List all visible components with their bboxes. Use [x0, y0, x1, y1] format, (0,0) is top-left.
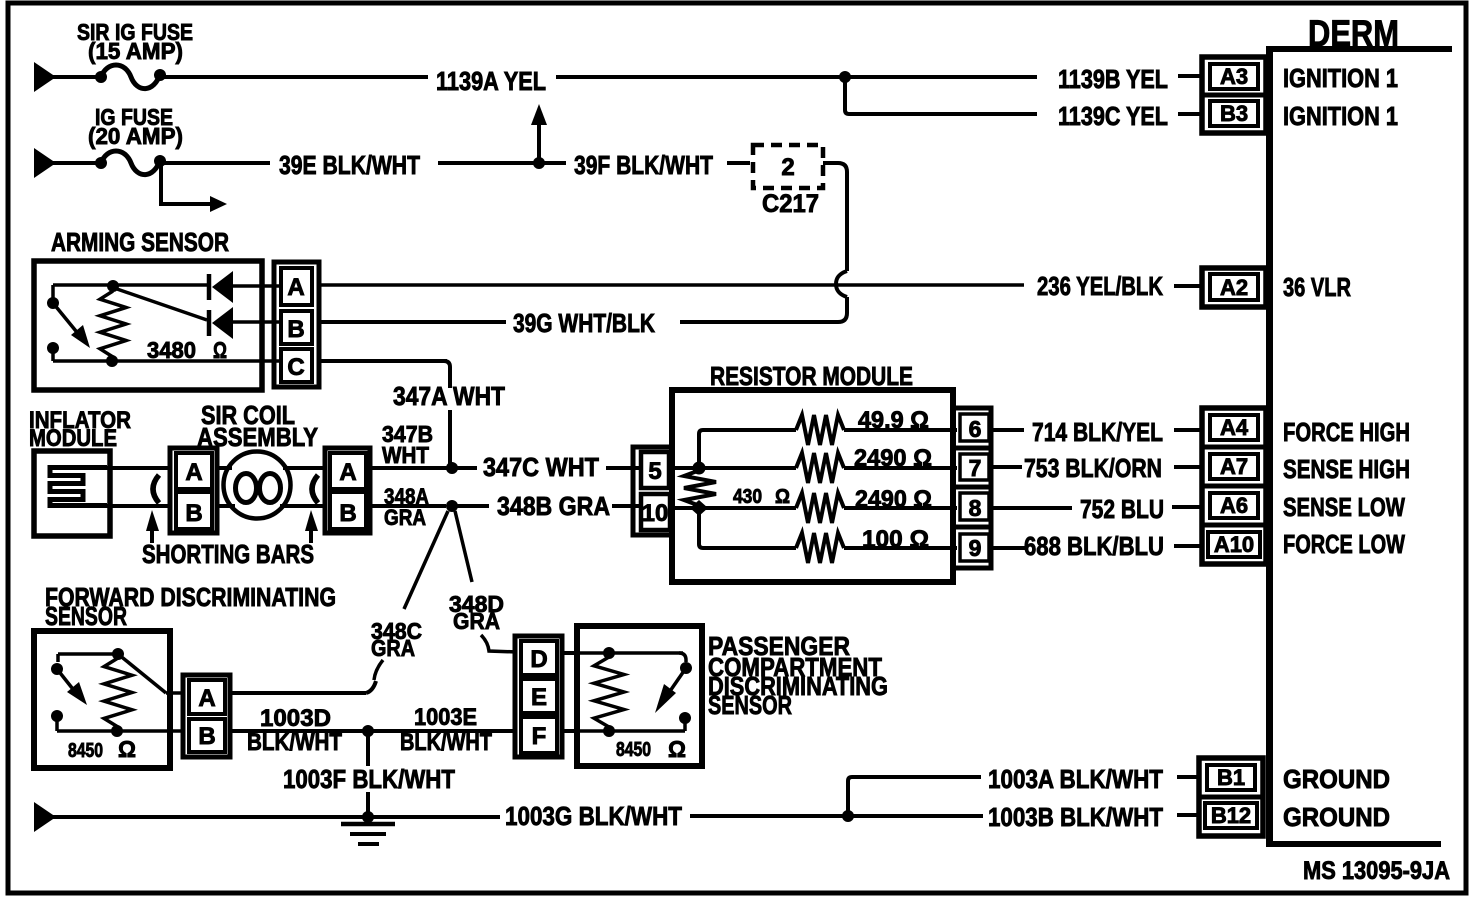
- coil connector right pin B: [330, 492, 366, 529]
- svg-text:A: A: [287, 274, 304, 301]
- wire 39F BLK/WHT: [539, 161, 566, 165]
- svg-text:39F BLK/WHT: 39F BLK/WHT: [574, 150, 713, 180]
- wire 348B GRA: [452, 504, 489, 508]
- wire 348D diagonal: [455, 511, 472, 582]
- svg-text:1139A YEL: 1139A YEL: [436, 66, 546, 96]
- wire 39E BLK/WHT: [164, 161, 270, 165]
- svg-text:5: 5: [648, 458, 661, 485]
- svg-text:688 BLK/BLU: 688 BLK/BLU: [1024, 531, 1164, 561]
- PCDS switch stub: [683, 718, 687, 731]
- wire diode D2 to pin B: [231, 320, 281, 324]
- FDS box: [34, 631, 170, 768]
- svg-text:7: 7: [969, 455, 982, 481]
- DEF connector shell: [515, 636, 562, 757]
- wire 1139C YEL drop: [845, 77, 1037, 114]
- module pin 10 box: [641, 494, 670, 530]
- pin A6 box: [1210, 493, 1258, 518]
- svg-text:B: B: [339, 500, 356, 527]
- DERM top line: [1266, 46, 1452, 52]
- resistor 430 ohm: [684, 470, 716, 506]
- PCDS box: [577, 626, 702, 766]
- svg-text:2: 2: [781, 154, 794, 181]
- DERM pins B1 B12 shell: [1199, 758, 1263, 836]
- pin D box: [521, 641, 557, 675]
- junction node 1139 splice: [839, 71, 851, 83]
- PCDS top wire: [580, 651, 683, 655]
- svg-text:1003G BLK/WHT: 1003G BLK/WHT: [505, 801, 682, 831]
- svg-text:IGNITION 1: IGNITION 1: [1283, 101, 1398, 131]
- resistor 2490 ohm (bottom): [796, 493, 844, 523]
- shorting bar clip right: [312, 475, 318, 503]
- svg-text:753 BLK/ORN: 753 BLK/ORN: [1024, 453, 1162, 483]
- bus node top: [693, 462, 706, 475]
- fuse F1 SIR IG FUSE 15A: [95, 71, 107, 83]
- branch wire with arrow (continues elsewhere): [161, 166, 212, 204]
- svg-text:BLK/WHT: BLK/WHT: [400, 729, 492, 756]
- svg-text:GRA: GRA: [384, 505, 426, 530]
- pin A4 box: [1210, 415, 1258, 440]
- arming pin C box: [281, 349, 312, 382]
- DERM pins A3 B3 shell: [1202, 57, 1266, 133]
- wire into pin 10: [612, 504, 641, 508]
- wire 347B WHT: [370, 466, 447, 470]
- FDS bottom wire: [57, 729, 183, 733]
- wire 347C to pin 5: [606, 466, 636, 470]
- wire connector to coil top: [217, 466, 232, 470]
- module connector shell: [633, 447, 672, 535]
- svg-text:FORCE LOW: FORCE LOW: [1283, 529, 1405, 559]
- wire stub to C217: [727, 161, 750, 165]
- arming sensor node bottom: [106, 355, 118, 367]
- svg-text:Ω: Ω: [213, 337, 227, 363]
- svg-text:A4: A4: [1220, 415, 1249, 440]
- pin B3 box: [1210, 101, 1258, 126]
- svg-text:A: A: [185, 459, 202, 486]
- wire 752 BLU: [991, 506, 1072, 510]
- FDS switch contact bottom: [51, 710, 63, 722]
- resistor 100 ohm: [796, 533, 844, 563]
- junction node 39 splice: [533, 157, 545, 169]
- svg-text:10: 10: [642, 500, 669, 527]
- ground symbol: [341, 822, 395, 827]
- arming sensor box: [34, 261, 262, 390]
- svg-text:Ω: Ω: [668, 736, 686, 762]
- svg-text:A6: A6: [1220, 493, 1248, 518]
- wire to pin 6: [844, 428, 957, 432]
- pin B1 box: [1207, 765, 1255, 790]
- arming sensor switch wire: [51, 285, 55, 300]
- svg-text:MS 13095-9JA: MS 13095-9JA: [1303, 857, 1450, 885]
- coil connector left pin B: [176, 492, 212, 529]
- module pin 5 box: [641, 452, 669, 488]
- wire 1139B YEL: [845, 75, 1037, 79]
- svg-text:347A WHT: 347A WHT: [393, 381, 505, 411]
- wire 348C diagonal: [404, 511, 448, 609]
- FDS switch stub: [55, 716, 59, 731]
- wire stub to B3: [1178, 112, 1201, 116]
- DERM bottom line: [1266, 841, 1441, 847]
- svg-text:347C WHT: 347C WHT: [483, 452, 599, 482]
- wire 348B to pin 10: [614, 504, 636, 508]
- wire 348C diagonal lower: [374, 660, 383, 680]
- svg-text:B1: B1: [1217, 765, 1245, 790]
- svg-text:9: 9: [969, 535, 982, 561]
- bus node bottom: [690, 500, 708, 516]
- svg-text:1003D: 1003D: [260, 705, 331, 732]
- svg-text:1003B BLK/WHT: 1003B BLK/WHT: [988, 802, 1163, 832]
- FDS switch arm: [57, 669, 76, 693]
- wire to pin 7: [844, 466, 957, 470]
- coil connector left pin A: [176, 453, 212, 489]
- svg-text:A3: A3: [1220, 64, 1248, 89]
- wire 753 BLK/ORN: [991, 465, 1022, 469]
- svg-text:MODULE: MODULE: [29, 425, 117, 452]
- svg-text:A10: A10: [1214, 532, 1254, 557]
- resistor module box: [672, 390, 953, 582]
- svg-text:SENSOR: SENSOR: [708, 690, 792, 720]
- FDS node bottom: [111, 725, 123, 737]
- SIR coil winding left: [236, 474, 257, 503]
- module pin 9 box: [953, 527, 991, 568]
- wire pin F to PCDS: [562, 729, 580, 733]
- wire stub to A6: [1172, 505, 1201, 509]
- svg-text:430: 430: [733, 486, 762, 508]
- svg-text:B: B: [198, 723, 215, 750]
- arming sensor bottom wire: [53, 359, 280, 363]
- coil connector left shell: [170, 448, 217, 533]
- PCDS node bottom: [603, 725, 615, 737]
- wire into pin 5: [610, 466, 641, 470]
- wire coil to right connector bottom: [280, 504, 327, 508]
- wire FDS pin A to 348C: [230, 691, 366, 695]
- wire hop over 236 wire: [836, 271, 847, 297]
- power feed arrow 1: [34, 62, 56, 92]
- DERM pins A4-A10 shell: [1202, 408, 1266, 564]
- SIR coil circle: [224, 452, 291, 519]
- FDS node top: [112, 648, 124, 660]
- wire bus to R2490b: [699, 506, 796, 510]
- wire diode D1 to pin A: [231, 284, 281, 288]
- svg-text:GRA: GRA: [453, 608, 500, 634]
- bus wire top: [699, 430, 796, 468]
- pin A2 box: [1210, 274, 1258, 300]
- wire: [52, 161, 97, 165]
- FDS pin A box: [189, 680, 225, 714]
- coil connector right pin A: [330, 453, 366, 489]
- wire stub to A3: [1178, 74, 1201, 78]
- power feed arrow 2: [34, 148, 56, 178]
- FDS resistor 8450 ohm: [104, 658, 132, 727]
- wire stub to A10: [1174, 544, 1201, 548]
- svg-text:39E BLK/WHT: 39E BLK/WHT: [279, 150, 420, 180]
- wire 347C WHT: [452, 466, 477, 470]
- wire: [52, 75, 97, 79]
- svg-text:D: D: [530, 646, 547, 673]
- wire 1003A riser: [848, 777, 981, 816]
- wire to pin 8: [844, 506, 957, 510]
- DERM vertical line: [1266, 49, 1273, 845]
- arming pin A box: [281, 268, 312, 305]
- wire down to 39G: [680, 297, 847, 322]
- PCDS switch arm: [668, 668, 686, 694]
- svg-text:236 YEL/BLK: 236 YEL/BLK: [1037, 271, 1163, 301]
- wire stub to A2: [1174, 284, 1201, 288]
- ground junction node: [362, 811, 374, 823]
- wire 348D curve to pin D: [481, 635, 517, 652]
- svg-text:A: A: [339, 459, 356, 486]
- svg-text:1003E: 1003E: [414, 704, 477, 731]
- PCDS switch wire: [679, 653, 686, 662]
- resistor 2490 ohm (top): [796, 453, 844, 483]
- pin F box: [521, 717, 557, 753]
- wire 714 BLK/YEL: [991, 428, 1024, 432]
- SIR coil winding right: [260, 474, 281, 503]
- PCDS switch contact top: [680, 662, 692, 674]
- arming sensor switch stub: [51, 348, 55, 361]
- svg-text:GRA: GRA: [371, 635, 415, 661]
- wire from C217 down: [823, 163, 847, 271]
- wire 1003D BLK/WHT: [230, 729, 517, 733]
- wire 1139A YEL: [164, 75, 428, 79]
- power feed arrow 3 (ground): [34, 802, 56, 832]
- pin B12 box: [1205, 803, 1257, 828]
- wire 39E BLK/WHT right: [438, 161, 535, 165]
- svg-text:B12: B12: [1211, 803, 1251, 828]
- svg-text:6: 6: [969, 416, 982, 442]
- wire 236 YEL/BLK: [319, 283, 1024, 287]
- svg-text:A2: A2: [1220, 275, 1248, 300]
- module pin 8 box: [953, 487, 991, 527]
- svg-text:39G WHT/BLK: 39G WHT/BLK: [513, 308, 655, 338]
- pin A3 box: [1210, 64, 1258, 89]
- divider A7/A6: [1202, 484, 1266, 489]
- wire 348A GRA: [370, 504, 446, 508]
- svg-text:FORCE HIGH: FORCE HIGH: [1283, 417, 1410, 447]
- arming sensor diagonal to diode D2: [117, 289, 207, 320]
- inflator module box: [34, 451, 110, 536]
- pin E box: [521, 679, 557, 713]
- svg-text:Ω: Ω: [118, 736, 136, 762]
- svg-text:GROUND: GROUND: [1283, 764, 1390, 794]
- svg-text:B: B: [287, 316, 304, 343]
- svg-text:8450: 8450: [616, 739, 651, 761]
- wire 347A vertical: [448, 410, 452, 464]
- wire stub to B1: [1177, 775, 1200, 779]
- svg-text:(20 AMP): (20 AMP): [88, 123, 183, 149]
- wire inflator to connector bottom: [107, 504, 172, 508]
- arming pin B box: [281, 311, 312, 344]
- wire bus to R2490: [699, 466, 796, 470]
- svg-text:RESISTOR MODULE: RESISTOR MODULE: [710, 361, 913, 391]
- wire stub to A7: [1174, 465, 1201, 469]
- pin B1 B12 divider: [1199, 795, 1263, 800]
- module pin 6 box: [953, 408, 991, 448]
- arming sensor node: [107, 280, 119, 292]
- wire 688 BLK/BLU: [991, 546, 1026, 550]
- shorting bars arrow right: [309, 528, 313, 543]
- PCDS switch contact bottom: [679, 712, 691, 724]
- pin A10 box: [1208, 532, 1260, 557]
- shorting bars arrow left: [150, 528, 154, 543]
- svg-text:E: E: [531, 684, 547, 711]
- svg-text:A: A: [198, 685, 215, 712]
- wire 39G WHT/BLK left: [319, 320, 506, 324]
- svg-text:8: 8: [969, 495, 982, 521]
- svg-text:F: F: [532, 723, 547, 750]
- arming sensor connector shell: [274, 262, 319, 387]
- wire 1003F vertical lower: [366, 792, 370, 817]
- branch arrow up (continues elsewhere): [537, 124, 541, 163]
- wire stub to B12: [1177, 813, 1200, 817]
- arming sensor top wire: [53, 283, 207, 287]
- arming sensor switch arm: [53, 303, 80, 336]
- divider A4/A7: [1202, 445, 1266, 450]
- coil connector right shell: [325, 448, 370, 533]
- svg-text:BLK/WHT: BLK/WHT: [247, 729, 342, 756]
- svg-text:(15 AMP): (15 AMP): [88, 38, 183, 64]
- diode D2: [207, 310, 212, 336]
- wire inflator to connector top: [107, 466, 172, 470]
- arming sensor switch contact bottom: [47, 342, 59, 354]
- wire ground left: [52, 815, 500, 819]
- svg-text:752 BLU: 752 BLU: [1080, 494, 1164, 524]
- PCDS bottom wire: [580, 729, 685, 733]
- svg-text:GROUND: GROUND: [1283, 802, 1390, 832]
- FDS top wire: [58, 652, 118, 656]
- svg-text:B: B: [185, 500, 202, 527]
- svg-text:WHT: WHT: [382, 442, 429, 468]
- svg-text:SENSE LOW: SENSE LOW: [1283, 492, 1405, 522]
- svg-text:1003F BLK/WHT: 1003F BLK/WHT: [283, 764, 455, 794]
- junction node 1003A/B splice: [842, 810, 854, 822]
- wire 1003F vertical: [366, 731, 370, 766]
- svg-text:SHORTING BARS: SHORTING BARS: [142, 539, 314, 569]
- wire pin 5 to bus: [669, 466, 699, 470]
- wire pin 10 to bus: [670, 506, 699, 510]
- divider A6/A10: [1202, 523, 1266, 528]
- junction node 348 splice: [446, 500, 458, 512]
- FDS switch contact top: [51, 663, 63, 675]
- diode D1: [207, 274, 212, 300]
- wire stub to A4: [1174, 428, 1201, 432]
- PCDS resistor 8450 ohm: [594, 657, 624, 727]
- resistor 49.9 ohm: [796, 415, 844, 445]
- wire coil to right connector top: [283, 466, 327, 470]
- svg-text:B3: B3: [1220, 101, 1248, 126]
- wire 1003G right: [690, 814, 848, 818]
- svg-text:A7: A7: [1220, 454, 1248, 479]
- svg-text:IGNITION 1: IGNITION 1: [1283, 63, 1398, 93]
- arming sensor switch contact top: [47, 297, 59, 309]
- FDS diagonal to pin A: [118, 654, 166, 693]
- wire connector to coil bottom: [217, 504, 235, 508]
- module pin 7 box: [953, 448, 991, 487]
- svg-text:ARMING SENSOR: ARMING SENSOR: [51, 227, 229, 257]
- svg-text:C: C: [287, 354, 304, 381]
- svg-text:SENSE HIGH: SENSE HIGH: [1283, 454, 1410, 484]
- svg-text:3480: 3480: [147, 337, 196, 363]
- pin A2 shell: [1202, 268, 1266, 307]
- shorting bar clip left: [153, 475, 159, 503]
- junction node 347 splice: [446, 462, 458, 474]
- wire to pin 9: [844, 546, 957, 550]
- PCDS node top: [603, 647, 615, 659]
- wire 347A corner down: [444, 361, 450, 388]
- junction node 1003 splice: [362, 725, 374, 737]
- pin A7 box: [1210, 454, 1258, 479]
- svg-text:714 BLK/YEL: 714 BLK/YEL: [1032, 417, 1163, 447]
- wire from pin C: [319, 359, 447, 363]
- FDS connector shell: [183, 675, 230, 757]
- svg-text:348B GRA: 348B GRA: [497, 491, 610, 521]
- wire pin D to PCDS: [562, 651, 580, 655]
- svg-text:C217: C217: [762, 190, 819, 218]
- inflator squib element: [50, 468, 107, 506]
- fuse F2 IG FUSE 20A: [95, 157, 107, 169]
- pin A3 B3 divider: [1202, 93, 1266, 98]
- resistor 3480 ohm: [100, 291, 126, 357]
- svg-text:36 VLR: 36 VLR: [1283, 272, 1351, 302]
- bus wire bottom: [699, 508, 796, 548]
- svg-text:SENSOR: SENSOR: [45, 601, 127, 631]
- wire 1003B BLK/WHT: [848, 814, 983, 818]
- FDS switch wire: [56, 654, 60, 662]
- svg-text:Ω: Ω: [775, 486, 790, 508]
- connector C217 pin 2 (dashed box): [753, 145, 823, 188]
- svg-text:1139B YEL: 1139B YEL: [1058, 64, 1168, 94]
- FDS pin B box: [189, 719, 225, 752]
- svg-text:1139C YEL: 1139C YEL: [1058, 101, 1168, 131]
- svg-text:1003A BLK/WHT: 1003A BLK/WHT: [988, 764, 1163, 794]
- wire 1139A YEL right: [556, 75, 845, 79]
- svg-text:8450: 8450: [68, 740, 103, 762]
